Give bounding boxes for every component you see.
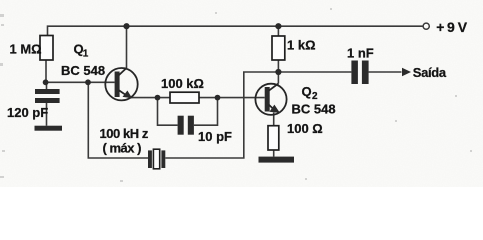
svg-text:BC 548: BC 548 xyxy=(61,63,105,78)
svg-text:+: + xyxy=(436,19,444,35)
svg-text:Q: Q xyxy=(302,84,312,99)
svg-text:1 MΩ: 1 MΩ xyxy=(10,42,42,57)
svg-text:100 kH z: 100 kH z xyxy=(100,126,149,141)
svg-text:9: 9 xyxy=(447,19,455,35)
svg-text:1 kΩ: 1 kΩ xyxy=(287,38,316,53)
svg-text:Saída: Saída xyxy=(413,65,447,80)
svg-text:2: 2 xyxy=(312,91,318,102)
svg-text:V: V xyxy=(458,19,468,35)
svg-text:100 Ω: 100 Ω xyxy=(287,121,323,136)
svg-text:1: 1 xyxy=(83,49,89,60)
svg-text:120 pF: 120 pF xyxy=(7,105,48,120)
svg-text:100 kΩ: 100 kΩ xyxy=(161,76,204,91)
svg-text:10 pF: 10 pF xyxy=(198,129,232,144)
svg-text:1 nF: 1 nF xyxy=(347,46,374,61)
svg-text:BC 548: BC 548 xyxy=(292,102,336,117)
svg-text:( máx ): ( máx ) xyxy=(103,141,142,156)
